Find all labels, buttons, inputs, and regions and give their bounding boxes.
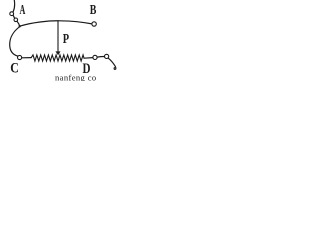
switch S1 contact circle (lower) — [14, 18, 18, 22]
wire from switch S1 to junction — [17, 21, 20, 26]
svg-text:A: A — [20, 3, 26, 18]
wire: left side from junction down to terminal C — [10, 27, 20, 56]
wire from terminal C to resistor winding — [22, 57, 32, 59]
svg-text:C: C — [10, 59, 19, 75]
svg-text:P: P — [63, 30, 70, 46]
slider P wire from rail down to resistor — [57, 21, 59, 51]
terminal B circle — [92, 22, 96, 26]
switch S2 open blade with end hook — [108, 58, 116, 69]
resistor winding C-D (rheostat zigzag) — [31, 55, 84, 61]
svg-text:B: B — [90, 1, 97, 17]
switch S1 contact circle (upper) — [10, 12, 14, 16]
slider P arrowhead — [56, 51, 61, 55]
terminal C circle — [18, 55, 22, 59]
wire: slider rail from junction to terminal B — [20, 21, 92, 26]
wire lead from top edge to switch S1 — [13, 0, 14, 12]
wire from terminal D to switch S2 — [97, 56, 104, 59]
svg-text:nanfeng co: nanfeng co — [55, 72, 97, 81]
switch S1 blade — [13, 15, 15, 18]
junction node — [19, 25, 21, 27]
switch S2 pivot circle — [105, 54, 109, 58]
terminal D circle — [93, 55, 97, 59]
wire from resistor to terminal D — [84, 57, 93, 60]
